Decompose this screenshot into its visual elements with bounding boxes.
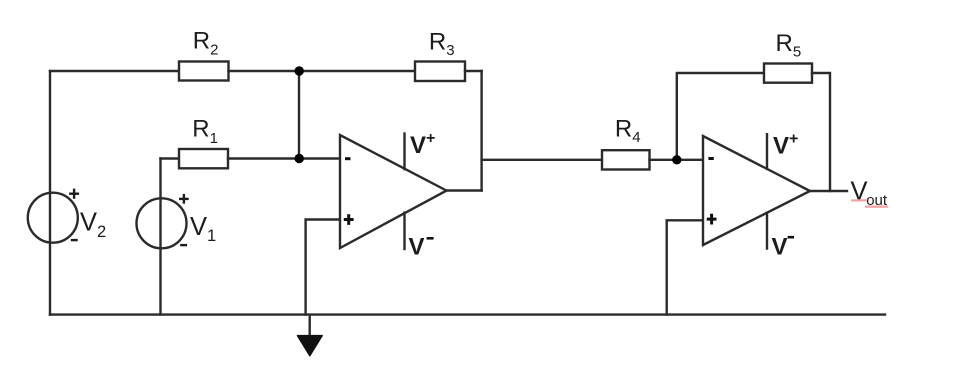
wire U1 output node to R4 — [482, 159, 602, 161]
wire U1 output — [447, 189, 482, 191]
op-amp U2 V+ pin — [766, 134, 768, 169]
resistor R2 — [179, 62, 229, 81]
resistor R5 — [764, 64, 812, 83]
spellcheck underline V — [851, 199, 867, 201]
wire R5 right down to U2 output — [812, 73, 830, 191]
U1 inverting input mark — [345, 157, 351, 160]
op-amp U2 V- pin — [766, 213, 768, 249]
U2 noninverting input mark — [707, 214, 717, 225]
svg-text:V: V — [772, 234, 788, 261]
voltage source V1 — [137, 198, 187, 248]
op-amp U2 — [703, 136, 810, 245]
V1 polarity marks — [179, 194, 189, 245]
node B junction dot — [295, 154, 304, 163]
U2 inverting input mark — [708, 157, 713, 160]
wire V1 vertical through source to bottom rail — [159, 159, 161, 315]
ground symbol — [297, 336, 322, 356]
wire V1 top to R1 — [161, 157, 180, 159]
resistor R4 — [602, 150, 650, 169]
svg-text:V: V — [409, 234, 425, 261]
wire U2 noninverting input to bottom rail — [667, 220, 703, 314]
wire vertical from R3 corner down to op-amp U1 output — [480, 71, 482, 191]
wire top rail from left corner to R2 — [50, 70, 179, 72]
op-amp U1 — [340, 135, 447, 248]
spellcheck underline out — [865, 206, 888, 208]
V2 polarity marks — [69, 189, 79, 241]
node C junction dot — [672, 155, 681, 164]
U1 noninverting input mark — [344, 214, 354, 225]
wire left vertical from top rail through V2 to bottom rail — [49, 71, 51, 315]
resistor R1 — [179, 149, 228, 168]
wire U2 output to Vout — [810, 190, 847, 192]
svg-text:V: V — [851, 178, 868, 206]
wire R3 right to corner — [465, 70, 482, 72]
wire R2 right to R3 — [229, 70, 416, 72]
wire vertical from node A down to node B — [298, 71, 300, 159]
wire R1 right to U1 inverting input — [228, 157, 340, 159]
wire bottom rail — [50, 313, 885, 315]
resistor R3 — [415, 62, 465, 82]
wire U1 noninverting input to bottom rail — [306, 220, 340, 315]
voltage source V2 — [28, 193, 78, 243]
wire feedback node up to R5 — [677, 73, 764, 160]
ground stem — [309, 315, 311, 337]
op-amp U1 V- pin — [403, 213, 405, 249]
op-amp U1 V+ pin — [403, 134, 405, 170]
node A junction dot — [295, 66, 304, 75]
wire R4 right to U2 inverting input — [650, 159, 704, 161]
